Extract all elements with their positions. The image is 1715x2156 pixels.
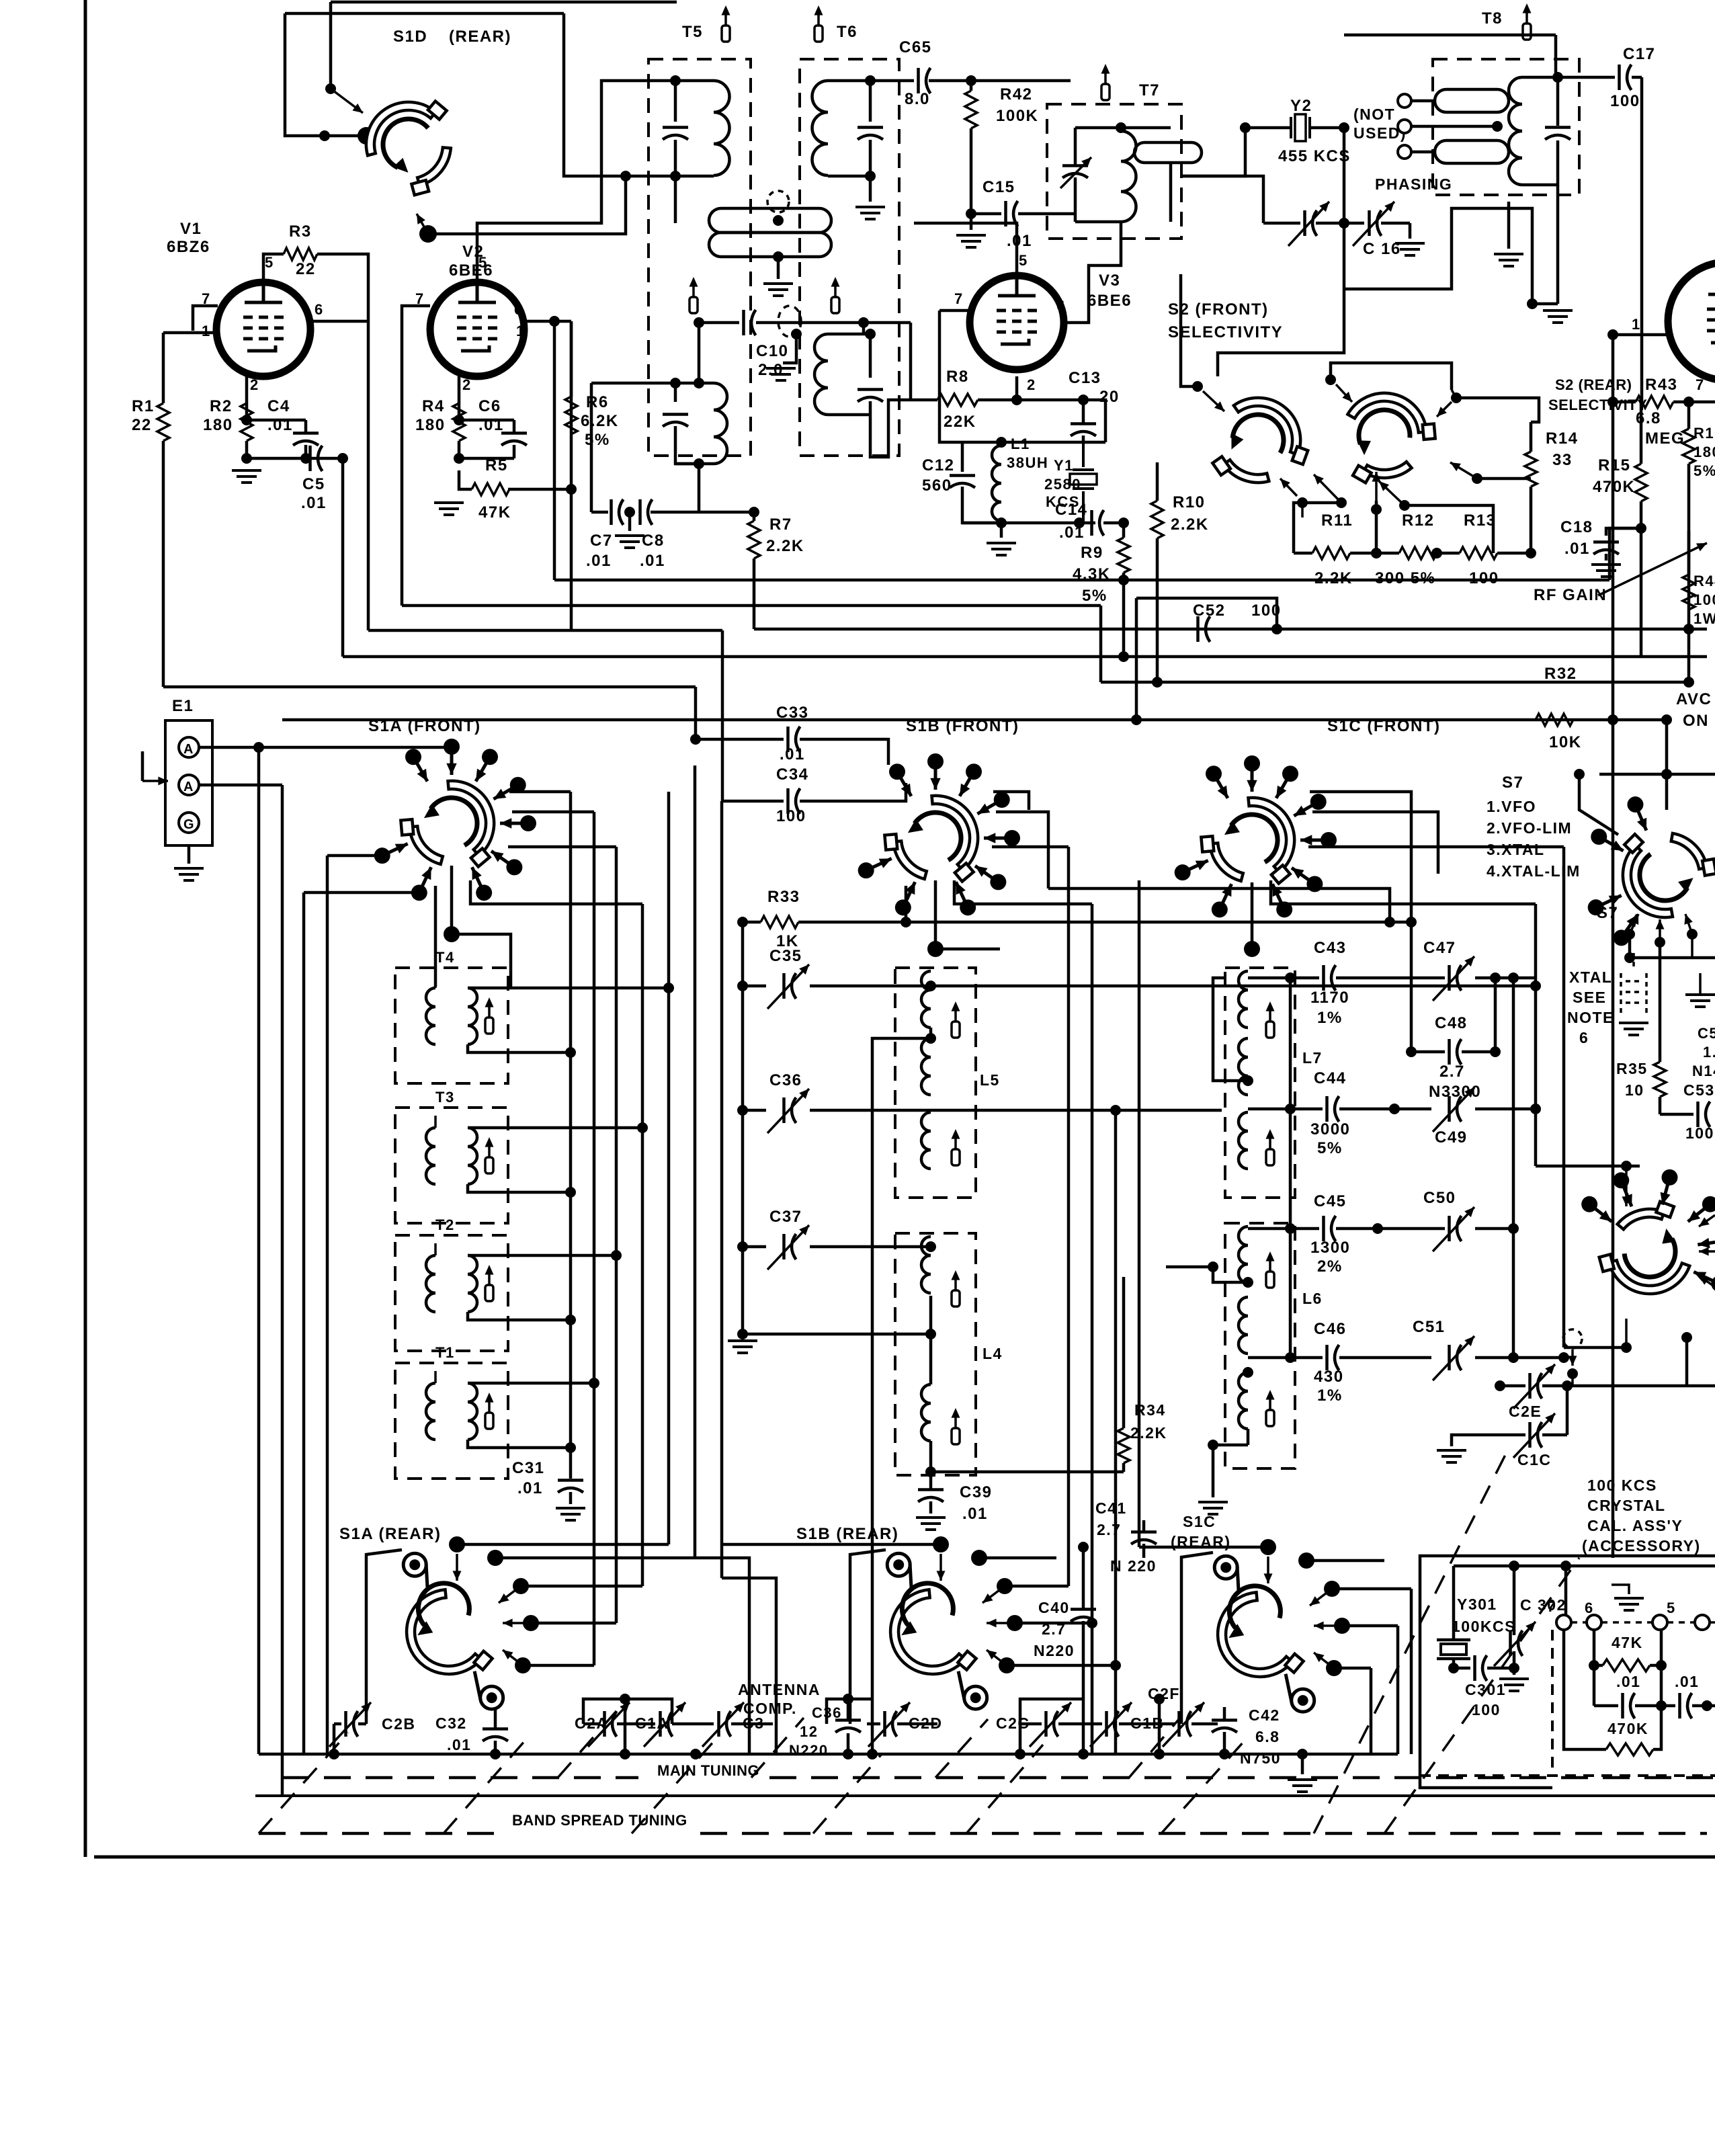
wire T8 coil bottom xyxy=(1522,183,1558,187)
wire L6 tap in xyxy=(1166,1266,1213,1269)
rotary switch S1B front xyxy=(884,796,978,882)
slug L4 lower xyxy=(954,1417,957,1428)
wire bus B y1015 xyxy=(1101,681,1689,684)
svg-text:R1: R1 xyxy=(132,397,155,415)
wire Y301 bottom xyxy=(1452,1659,1456,1668)
svg-text:1: 1 xyxy=(516,323,526,339)
wire vert x2285 xyxy=(1534,904,1538,1166)
wire S7 c down b xyxy=(1659,942,1662,1062)
svg-text:E1: E1 xyxy=(172,697,194,715)
slug T2 xyxy=(488,1274,491,1285)
rotary switch S1D xyxy=(360,95,460,202)
capacitor C7 xyxy=(610,499,613,525)
S1B front contact -60 xyxy=(960,772,974,796)
wire x487 to S1A xyxy=(327,854,382,858)
arrow RF GAIN xyxy=(1598,543,1707,595)
ground C301 xyxy=(1499,1679,1529,1691)
svg-text:R11: R11 xyxy=(1321,511,1353,530)
coil T4 primary xyxy=(426,988,435,1044)
svg-text:22: 22 xyxy=(132,416,152,434)
wire T6 to C65 xyxy=(870,79,914,83)
svg-text:C5: C5 xyxy=(302,475,325,493)
wire S7 feed b xyxy=(1665,774,1669,810)
variable capacitor C1A xyxy=(659,1711,662,1737)
slug T3 xyxy=(488,1147,491,1157)
wire S1A c2 xyxy=(512,811,594,814)
wire 470K up xyxy=(1653,1706,1661,1749)
tube V3 6BE6 xyxy=(970,276,1064,370)
coil L5 sections xyxy=(921,971,931,1028)
svg-text:2.2K: 2.2K xyxy=(766,537,804,555)
wire vert x1074 down xyxy=(720,801,724,1578)
wire antenna stub xyxy=(141,751,144,781)
ground C39 xyxy=(916,1518,946,1530)
wire S2R to R14 xyxy=(1456,398,1539,422)
svg-text:C7: C7 xyxy=(590,532,613,550)
wire C2F left xyxy=(1158,1699,1161,1754)
svg-text:C301: C301 xyxy=(1465,1681,1506,1698)
wire C48 left up xyxy=(1410,922,1413,1052)
svg-text:C47: C47 xyxy=(1423,939,1456,957)
wire S2R top xyxy=(1331,363,1452,390)
wire C10 left xyxy=(699,321,739,325)
svg-text:C2E: C2E xyxy=(1509,1403,1542,1420)
wire top S7 bus xyxy=(1599,773,1715,776)
wire S1A rear top2 xyxy=(495,1557,695,1560)
slug L7 lower xyxy=(1269,1138,1271,1149)
svg-text:S1A (REAR): S1A (REAR) xyxy=(339,1525,441,1543)
S1B front contact -90 xyxy=(934,761,937,790)
svg-text:430: 430 xyxy=(1314,1368,1344,1386)
wire C302 top xyxy=(1513,1566,1516,1635)
ground C1C xyxy=(1437,1450,1466,1462)
wire solid y2672 xyxy=(255,1794,1715,1797)
ground C16 xyxy=(1395,243,1425,255)
S2 wiper contact right xyxy=(1472,473,1482,484)
transformer T5 primary tank xyxy=(670,75,681,86)
wire S1D to T5 bottom node xyxy=(428,176,626,234)
wire R10 down xyxy=(1156,538,1159,682)
variable capacitor C2E xyxy=(1528,1373,1532,1399)
svg-text:N220: N220 xyxy=(789,1742,829,1759)
wire S7 row xyxy=(1630,956,1715,960)
svg-text:47K: 47K xyxy=(478,503,511,522)
svg-text:R13: R13 xyxy=(1464,511,1497,530)
svg-text:PHASING: PHASING xyxy=(1375,175,1452,193)
coil T6 primary xyxy=(812,81,829,175)
wire T7 link down xyxy=(1169,163,1173,222)
wire bus C to C34 xyxy=(722,751,784,801)
terminal T8 c xyxy=(1398,145,1411,159)
coil T6 secondary xyxy=(814,334,828,415)
coil T2 secondary xyxy=(468,1255,477,1312)
svg-text:5: 5 xyxy=(478,254,488,271)
wire S1A bottom to T4 xyxy=(434,886,437,987)
svg-text:L1: L1 xyxy=(1011,436,1030,452)
svg-text:T3: T3 xyxy=(435,1089,455,1106)
terminal T8 b xyxy=(1398,120,1411,133)
svg-text:6: 6 xyxy=(1056,297,1066,314)
svg-text:12: 12 xyxy=(800,1723,818,1740)
slug T6 xyxy=(817,15,820,26)
svg-text:S2 (FRONT): S2 (FRONT) xyxy=(1168,300,1269,319)
wire phasing left up xyxy=(1181,176,1263,223)
wire S7 c down a xyxy=(1628,934,1632,958)
svg-text:SELECTIVITY: SELECTIVITY xyxy=(1548,397,1647,413)
arrow dashed linkage xyxy=(1571,1350,1574,1366)
svg-text:C34: C34 xyxy=(776,765,809,784)
svg-text:C45: C45 xyxy=(1314,1192,1347,1210)
svg-text:R12: R12 xyxy=(1402,511,1435,530)
wire L4 bottom xyxy=(929,1441,933,1472)
svg-text:C8: C8 xyxy=(642,532,665,550)
svg-text:N220: N220 xyxy=(1034,1642,1075,1659)
wire C1C right up xyxy=(1566,1386,1569,1435)
wire T8 top xyxy=(1344,34,1556,37)
svg-text:T7: T7 xyxy=(1139,81,1160,99)
wire R8 left up xyxy=(909,323,913,400)
variable capacitor C3 xyxy=(717,1711,720,1737)
svg-text:L5: L5 xyxy=(980,1071,1000,1089)
capacitor T7 variable xyxy=(1062,164,1088,167)
wire C41 bottom xyxy=(1142,1544,1146,1558)
S1A front contact 155 xyxy=(382,843,408,856)
svg-text:C12: C12 xyxy=(922,456,955,474)
wire pin7 column xyxy=(1564,1630,1606,1749)
svg-text:C54: C54 xyxy=(1698,1025,1715,1042)
svg-text:2.7: 2.7 xyxy=(1042,1620,1066,1638)
rotary switch S1A front xyxy=(401,781,494,867)
svg-text:L4: L4 xyxy=(982,1345,1003,1362)
ground socket xyxy=(1612,1585,1629,1594)
wire R9 down to bus xyxy=(1122,573,1126,657)
wire bus E down to C33 xyxy=(694,687,698,739)
wire S1B c4 xyxy=(954,880,1092,904)
svg-text:(REAR): (REAR) xyxy=(449,28,511,46)
wire T8 term a xyxy=(1411,99,1435,103)
slug T4 xyxy=(488,1007,491,1018)
wire T3 sec out xyxy=(468,1184,571,1192)
svg-text:R44: R44 xyxy=(1693,573,1715,589)
wire S1C c3 xyxy=(1308,845,1564,849)
svg-text:4.XTAL-LIM: 4.XTAL-LIM xyxy=(1487,862,1581,880)
svg-text:100KCS: 100KCS xyxy=(1452,1618,1516,1635)
wire S1A rear c4 xyxy=(523,1664,594,1667)
svg-text:2%: 2% xyxy=(1317,1257,1343,1276)
wire R3 to V1 pin6 xyxy=(317,254,368,321)
coil T5 primary xyxy=(714,81,729,175)
capacitor T8 xyxy=(1545,126,1571,129)
coil L7 sections xyxy=(1239,971,1248,1028)
wire T5 pri to V2 grid xyxy=(674,176,677,223)
S1B bottom pole xyxy=(934,880,937,949)
ground E1 xyxy=(174,868,204,880)
S1A front contact -90 xyxy=(450,747,454,775)
svg-text:6BE6: 6BE6 xyxy=(1087,292,1132,310)
wire x1074 stair xyxy=(722,1578,776,1754)
wire S1D rect top xyxy=(285,12,564,15)
svg-text:C10: C10 xyxy=(756,342,789,360)
svg-text:180: 180 xyxy=(1693,444,1715,460)
S1A front contact 35 xyxy=(491,851,514,867)
svg-text:22K: 22K xyxy=(944,413,976,431)
svg-text:2: 2 xyxy=(462,376,472,393)
coil T5 secondary xyxy=(714,383,727,464)
slug L6 lower xyxy=(1269,1399,1271,1410)
wire C10 gnd lead xyxy=(783,334,796,363)
svg-text:1300: 1300 xyxy=(1310,1239,1350,1257)
svg-text:22: 22 xyxy=(296,260,316,278)
rotary switch S1C rear xyxy=(1214,1556,1314,1712)
rotary switch S2 front xyxy=(1193,382,1316,503)
wire C33 to S1B xyxy=(800,739,888,765)
svg-text:Y301: Y301 xyxy=(1457,1595,1497,1613)
wire V2 pin5 to T5 xyxy=(477,81,675,282)
ground T8 xyxy=(1543,310,1573,323)
terminal T8 a xyxy=(1398,94,1411,108)
svg-text:S7: S7 xyxy=(1502,774,1523,792)
wire C48 right up xyxy=(1494,978,1497,1052)
wire C column left xyxy=(1289,978,1292,1358)
coil L4 box xyxy=(895,1233,976,1475)
wire T4 sec top feed xyxy=(468,987,669,990)
S2 wiper contact mid xyxy=(1399,500,1410,511)
junction R5 right xyxy=(566,484,577,495)
wire vert x917 xyxy=(615,847,618,1623)
svg-text:R10: R10 xyxy=(1173,493,1206,511)
wire T5 sec left down xyxy=(590,383,593,512)
wire bus C y938 xyxy=(368,629,722,632)
svg-text:(NOT: (NOT xyxy=(1353,106,1395,123)
wire V1 pin2 down xyxy=(245,376,249,420)
wire V2 pin2 down xyxy=(458,376,461,420)
svg-text:C51: C51 xyxy=(1413,1318,1446,1336)
svg-text:C36: C36 xyxy=(769,1071,802,1089)
svg-text:T4: T4 xyxy=(435,949,455,966)
svg-text:300 5%: 300 5% xyxy=(1375,569,1435,587)
svg-text:1%: 1% xyxy=(1317,1009,1343,1027)
wire T8 term c xyxy=(1411,151,1435,154)
svg-text:C46: C46 xyxy=(1314,1320,1347,1338)
wire L1 frame bottom xyxy=(962,522,1095,525)
svg-text:100: 100 xyxy=(1610,92,1640,110)
svg-text:2.7: 2.7 xyxy=(1097,1521,1121,1538)
wire vert x420 xyxy=(281,785,284,1796)
junction trap mid xyxy=(773,215,784,226)
transformer T4 box xyxy=(395,968,508,1083)
svg-text:T2: T2 xyxy=(435,1216,455,1233)
wire C10 to T5 sec xyxy=(698,323,701,383)
S1A front contact 65 xyxy=(472,867,484,893)
wire S1B rear c2 xyxy=(1005,1585,1069,1588)
svg-text:C33: C33 xyxy=(776,704,809,722)
terminal A2 xyxy=(179,775,199,795)
wire S1B rear top2 xyxy=(979,1557,1056,1560)
wire vert x385 xyxy=(257,747,261,1754)
slug T7 xyxy=(1104,73,1107,84)
wire V4 pin1 down xyxy=(1612,335,1615,402)
svg-text:6: 6 xyxy=(1579,1029,1589,1046)
staircase S1B rear xyxy=(1069,1557,1116,1559)
ground bottom bus xyxy=(1288,1780,1317,1792)
svg-text:20: 20 xyxy=(1099,388,1120,406)
S1A front contact -60 xyxy=(476,757,490,781)
variable capacitor C1C xyxy=(1528,1422,1532,1448)
coil L6 box xyxy=(1225,1223,1295,1468)
wire return to S1B xyxy=(1048,888,1390,922)
wire S1D right leg to T5 xyxy=(564,13,675,176)
svg-text:2: 2 xyxy=(250,376,259,393)
wire S1C c4 down xyxy=(1370,1668,1373,1754)
wire C column right xyxy=(1512,978,1515,1358)
svg-text:2.2K: 2.2K xyxy=(1130,1424,1167,1442)
svg-text:S1B (FRONT): S1B (FRONT) xyxy=(906,717,1019,735)
capacitor T5 secondary xyxy=(663,413,688,416)
svg-text:C53: C53 xyxy=(1683,1081,1715,1099)
coil T3 primary xyxy=(426,1128,435,1184)
S1B front contact -120 xyxy=(897,772,911,796)
wire L4 to R34 xyxy=(931,1470,1124,1474)
svg-text:.01: .01 xyxy=(962,1505,988,1523)
wire V3 pin7 to L1 xyxy=(939,310,962,442)
variable capacitor phasing xyxy=(1303,210,1306,236)
wire R42 to C15 xyxy=(970,128,973,214)
coil T2 primary xyxy=(426,1255,435,1312)
svg-text:N140: N140 xyxy=(1692,1063,1715,1079)
svg-text:R42: R42 xyxy=(1000,85,1033,103)
svg-text:6.8: 6.8 xyxy=(1636,409,1661,427)
rotary switch S7 deck1 xyxy=(1620,827,1715,921)
coil T1 primary xyxy=(426,1383,435,1440)
wire C10 right xyxy=(756,321,911,325)
wire vert x1034 xyxy=(694,765,697,1558)
svg-text:5: 5 xyxy=(265,254,274,271)
S1A rear contacts xyxy=(449,1536,465,1552)
S2 front contacts xyxy=(1203,391,1224,411)
S7 d1 contacts xyxy=(1622,915,1638,938)
wire vert x452 xyxy=(302,893,306,1754)
tube V2 6BE6 xyxy=(430,282,524,376)
svg-text:.01: .01 xyxy=(1007,232,1032,250)
svg-text:C43: C43 xyxy=(1314,939,1347,957)
capacitor T6 secondary xyxy=(857,388,883,391)
svg-text:R6: R6 xyxy=(586,393,609,411)
wire x1034 stair xyxy=(695,1558,749,1754)
wire T5 sec to C7 xyxy=(591,511,608,514)
wire S1B rear top xyxy=(722,1543,941,1546)
svg-text:C2B: C2B xyxy=(382,1715,416,1733)
svg-text:1W: 1W xyxy=(1693,610,1715,627)
svg-text:MEG: MEG xyxy=(1645,429,1685,448)
S1C bottom pole xyxy=(1251,882,1254,949)
coil T4 secondary xyxy=(468,988,477,1044)
wire pin6 down to bus xyxy=(367,321,370,630)
coil wave trap lower xyxy=(709,233,831,257)
svg-text:5: 5 xyxy=(1667,1600,1676,1616)
wire C5 down to bus xyxy=(341,458,345,657)
S1A bottom pole xyxy=(450,866,454,934)
wire crystal assy outer box xyxy=(1420,1556,1715,1788)
wire S1C c1 xyxy=(1310,792,1411,922)
S1A front contact 115 xyxy=(419,867,431,893)
coil T8 main xyxy=(1509,77,1522,185)
wire E1 A1 to S1A xyxy=(199,746,452,749)
svg-text:560: 560 xyxy=(922,476,952,495)
wire T8 bottom down xyxy=(1556,185,1560,304)
wire S1C c2 xyxy=(1312,812,1438,874)
svg-text:3000: 3000 xyxy=(1310,1120,1350,1138)
svg-text:R34: R34 xyxy=(1134,1401,1166,1419)
svg-text:1.VFO: 1.VFO xyxy=(1487,798,1536,815)
wire Y301 top xyxy=(1452,1566,1456,1640)
svg-text:T5: T5 xyxy=(682,23,703,41)
svg-text:C18: C18 xyxy=(1560,518,1593,536)
wire R33 bus xyxy=(906,921,1411,924)
wire R44 top xyxy=(1687,531,1691,575)
arrow antenna input xyxy=(142,780,168,782)
wire T1 sec top feed xyxy=(468,1382,594,1385)
S1B front contact 155 xyxy=(866,858,892,870)
wire C13 to L1 frame xyxy=(1083,400,1105,442)
wire S1B c2 xyxy=(996,812,1048,888)
S1C front contact -90 xyxy=(1251,763,1254,792)
svg-text:1: 1 xyxy=(202,323,211,339)
wire Y2 down xyxy=(1218,128,1344,376)
junction S1D left xyxy=(319,130,330,141)
svg-text:7: 7 xyxy=(1547,1598,1556,1615)
svg-text:2.VFO-LIM: 2.VFO-LIM xyxy=(1487,819,1572,837)
coil T7 xyxy=(1121,131,1136,222)
svg-text:XTAL: XTAL xyxy=(1569,968,1612,986)
svg-text:RF GAIN: RF GAIN xyxy=(1534,586,1607,604)
S1C front contact -30 xyxy=(1294,802,1318,816)
slug T1 xyxy=(488,1402,491,1413)
wire R2/C4 to C5 xyxy=(247,441,343,458)
wire T4 pri top stub xyxy=(434,976,437,988)
svg-text:.01: .01 xyxy=(640,552,665,570)
svg-text:C49: C49 xyxy=(1435,1128,1468,1147)
ground C7C8 xyxy=(615,536,644,548)
wire S1D contact A drop xyxy=(329,2,333,89)
wire C65 to T7 xyxy=(971,79,1071,83)
ground wave trap xyxy=(763,284,793,296)
wire to C33 xyxy=(696,738,784,741)
wire C1C left xyxy=(1452,1435,1489,1446)
wire 47K right down xyxy=(1660,1665,1663,1706)
coil L7 box xyxy=(1225,968,1295,1198)
transformer T6 box xyxy=(800,59,899,456)
variable capacitor C2D xyxy=(883,1711,886,1737)
wire bus D y977 xyxy=(343,655,1707,659)
svg-text:180: 180 xyxy=(415,416,446,434)
svg-text:AVC: AVC xyxy=(1676,690,1712,708)
wire S7 feed xyxy=(1579,774,1618,835)
coil T7 secondary link xyxy=(1134,142,1202,163)
wire vert x2327 xyxy=(1562,847,1566,1347)
wire E1 A2 out xyxy=(199,784,282,787)
wire top bus to T5 xyxy=(331,1,677,4)
wire R6 down xyxy=(570,489,573,629)
wire Y2 left xyxy=(1181,128,1245,176)
svg-text:100: 100 xyxy=(1685,1124,1714,1142)
wire S1A c4 xyxy=(470,880,642,904)
svg-text:100: 100 xyxy=(1693,591,1715,608)
wire main bus bottom y2610 xyxy=(259,1753,1398,1756)
svg-text:C31: C31 xyxy=(512,1459,545,1477)
svg-text:R35: R35 xyxy=(1616,1060,1648,1077)
wire bus E y1022 xyxy=(163,686,696,689)
wire vert x956 xyxy=(641,904,644,1586)
